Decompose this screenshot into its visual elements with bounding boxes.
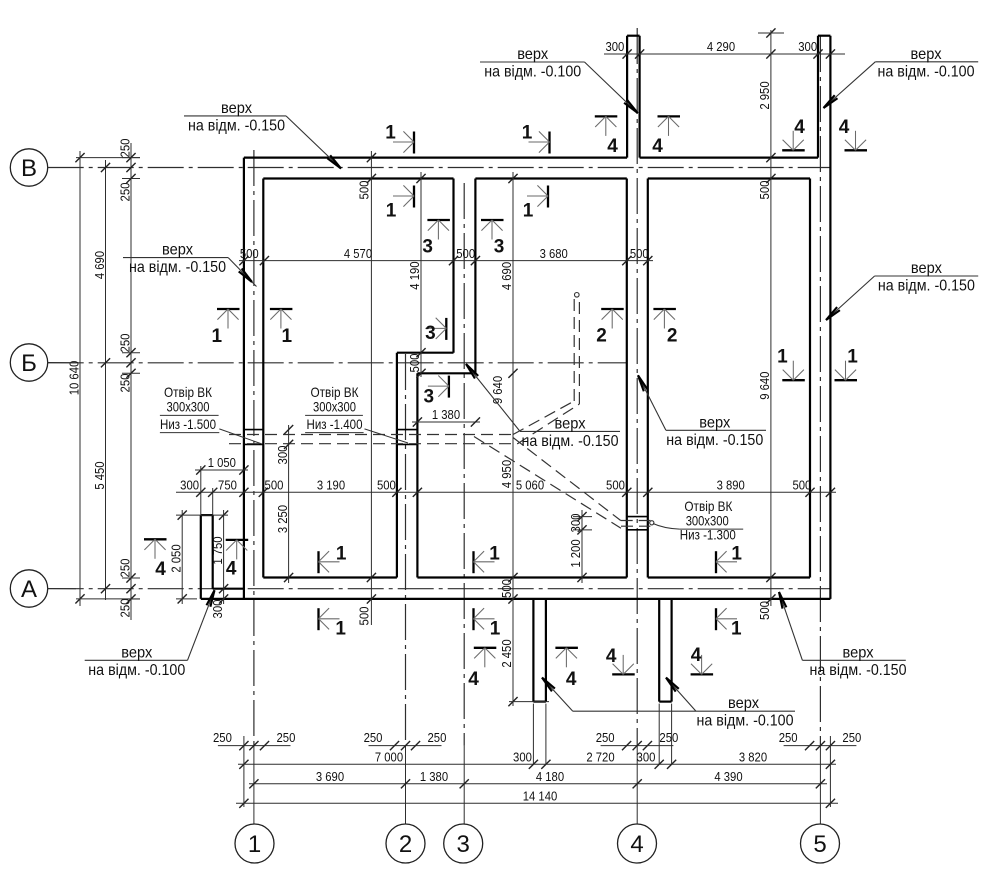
svg-text:500: 500 <box>630 246 649 261</box>
svg-text:2 720: 2 720 <box>586 750 614 765</box>
svg-text:2: 2 <box>596 326 607 347</box>
svg-text:на відм. -0.100: на відм. -0.100 <box>697 713 794 730</box>
svg-text:1: 1 <box>731 619 742 640</box>
svg-text:1: 1 <box>490 619 501 640</box>
svg-text:верх: верх <box>555 415 586 432</box>
svg-text:250: 250 <box>117 599 132 618</box>
svg-text:750: 750 <box>218 478 237 493</box>
svg-text:7 000: 7 000 <box>375 750 403 765</box>
svg-text:верх: верх <box>911 46 942 63</box>
svg-text:500: 500 <box>792 478 811 493</box>
svg-text:2 050: 2 050 <box>168 544 183 572</box>
svg-text:500: 500 <box>265 478 284 493</box>
svg-text:1: 1 <box>489 544 500 565</box>
svg-text:А: А <box>21 576 37 603</box>
svg-text:на відм. -0.150: на відм. -0.150 <box>666 432 763 449</box>
svg-text:500: 500 <box>357 181 372 200</box>
svg-text:300х300: 300х300 <box>313 399 356 415</box>
svg-text:1: 1 <box>847 347 858 368</box>
svg-text:верх: верх <box>162 242 193 259</box>
svg-text:4: 4 <box>607 136 618 157</box>
svg-text:2: 2 <box>399 831 412 858</box>
svg-text:300х300: 300х300 <box>167 399 210 415</box>
svg-text:3 690: 3 690 <box>316 769 344 784</box>
svg-text:300: 300 <box>637 750 656 765</box>
svg-text:3 890: 3 890 <box>717 478 745 493</box>
svg-text:300: 300 <box>275 446 290 465</box>
svg-text:Низ -1.300: Низ -1.300 <box>680 527 736 543</box>
svg-text:4: 4 <box>794 117 805 138</box>
svg-text:1 380: 1 380 <box>420 769 448 784</box>
svg-text:В: В <box>21 155 37 182</box>
svg-text:5 450: 5 450 <box>92 461 107 489</box>
svg-text:2: 2 <box>667 326 678 347</box>
svg-text:250: 250 <box>117 334 132 353</box>
svg-text:5 060: 5 060 <box>516 478 544 493</box>
svg-text:Низ -1.500: Низ -1.500 <box>160 416 216 432</box>
svg-text:4: 4 <box>606 646 617 667</box>
svg-text:300: 300 <box>180 478 199 493</box>
svg-text:4 390: 4 390 <box>714 769 742 784</box>
svg-text:на відм. -0.100: на відм. -0.100 <box>88 662 185 679</box>
svg-text:250: 250 <box>117 139 132 158</box>
svg-text:4: 4 <box>226 558 237 579</box>
svg-text:250: 250 <box>779 730 798 745</box>
svg-text:9 640: 9 640 <box>490 376 505 404</box>
svg-text:500: 500 <box>240 246 259 261</box>
svg-text:4: 4 <box>468 669 479 690</box>
svg-text:4 690: 4 690 <box>499 262 514 290</box>
svg-text:5: 5 <box>813 831 826 858</box>
svg-text:3: 3 <box>422 237 433 258</box>
svg-text:1 380: 1 380 <box>432 407 460 422</box>
svg-text:500: 500 <box>499 579 514 598</box>
svg-text:1: 1 <box>336 544 347 565</box>
svg-text:3: 3 <box>457 831 470 858</box>
svg-text:500: 500 <box>757 601 772 620</box>
svg-text:3: 3 <box>425 323 436 344</box>
svg-text:250: 250 <box>277 730 296 745</box>
svg-text:500: 500 <box>407 354 422 373</box>
svg-text:3 250: 3 250 <box>275 505 290 533</box>
svg-text:на відм. -0.150: на відм. -0.150 <box>878 278 975 295</box>
svg-text:1 750: 1 750 <box>210 536 225 564</box>
svg-text:Б: Б <box>21 350 37 377</box>
svg-text:500: 500 <box>357 607 372 626</box>
svg-text:250: 250 <box>428 730 447 745</box>
svg-text:4 950: 4 950 <box>499 460 514 488</box>
svg-text:500: 500 <box>456 246 475 261</box>
svg-text:500: 500 <box>606 478 625 493</box>
svg-text:на відм. -0.100: на відм. -0.100 <box>484 64 581 81</box>
svg-text:2 950: 2 950 <box>757 81 772 109</box>
svg-text:1: 1 <box>522 123 533 144</box>
svg-text:250: 250 <box>659 730 678 745</box>
svg-text:250: 250 <box>213 730 232 745</box>
svg-text:4 690: 4 690 <box>92 251 107 279</box>
svg-text:2 450: 2 450 <box>499 639 514 667</box>
svg-text:на відм. -0.100: на відм. -0.100 <box>878 63 975 80</box>
svg-text:3 680: 3 680 <box>540 246 568 261</box>
svg-text:Низ -1.400: Низ -1.400 <box>307 416 363 432</box>
svg-text:250: 250 <box>596 730 615 745</box>
svg-text:4: 4 <box>155 559 166 580</box>
svg-text:3: 3 <box>494 237 505 258</box>
svg-text:3 820: 3 820 <box>739 750 767 765</box>
svg-text:250: 250 <box>842 730 861 745</box>
svg-text:на відм. -0.150: на відм. -0.150 <box>522 433 619 450</box>
svg-text:3: 3 <box>424 387 435 408</box>
svg-text:9 640: 9 640 <box>757 372 772 400</box>
svg-text:1: 1 <box>777 347 788 368</box>
svg-text:4: 4 <box>839 117 850 138</box>
svg-text:250: 250 <box>117 374 132 393</box>
svg-text:на відм. -0.150: на відм. -0.150 <box>810 662 907 679</box>
svg-text:14 140: 14 140 <box>523 789 558 804</box>
svg-text:1 050: 1 050 <box>208 455 236 470</box>
svg-text:верх: верх <box>843 644 874 661</box>
svg-text:250: 250 <box>364 730 383 745</box>
svg-text:верх: верх <box>221 100 252 117</box>
svg-text:верх: верх <box>699 414 730 431</box>
svg-text:на відм. -0.150: на відм. -0.150 <box>188 117 285 134</box>
svg-text:4: 4 <box>691 645 702 666</box>
svg-text:250: 250 <box>117 559 132 578</box>
svg-text:500: 500 <box>377 478 396 493</box>
svg-text:1: 1 <box>282 326 293 347</box>
svg-text:300: 300 <box>568 514 583 533</box>
svg-text:1: 1 <box>248 831 261 858</box>
svg-text:4: 4 <box>652 136 663 157</box>
svg-text:3 190: 3 190 <box>317 478 345 493</box>
svg-text:4 180: 4 180 <box>536 769 564 784</box>
svg-text:300: 300 <box>513 750 532 765</box>
svg-text:1: 1 <box>731 544 742 565</box>
svg-text:300: 300 <box>605 39 624 54</box>
svg-text:на відм. -0.150: на відм. -0.150 <box>129 259 226 276</box>
svg-text:1: 1 <box>212 326 223 347</box>
svg-text:4: 4 <box>566 669 577 690</box>
svg-text:верх: верх <box>517 46 548 63</box>
svg-text:1 200: 1 200 <box>568 539 583 567</box>
svg-text:10 640: 10 640 <box>66 361 81 396</box>
svg-text:250: 250 <box>117 183 132 202</box>
svg-text:500: 500 <box>757 181 772 200</box>
svg-text:4 190: 4 190 <box>407 262 422 290</box>
svg-text:верх: верх <box>121 644 152 661</box>
svg-text:верх: верх <box>911 260 942 277</box>
svg-text:1: 1 <box>335 619 346 640</box>
svg-text:300: 300 <box>798 39 817 54</box>
svg-text:верх: верх <box>728 695 759 712</box>
svg-text:4 570: 4 570 <box>344 246 372 261</box>
svg-text:1: 1 <box>523 201 534 222</box>
svg-text:4 290: 4 290 <box>707 39 735 54</box>
svg-text:1: 1 <box>386 201 397 222</box>
svg-text:1: 1 <box>385 123 396 144</box>
svg-text:4: 4 <box>630 831 643 858</box>
